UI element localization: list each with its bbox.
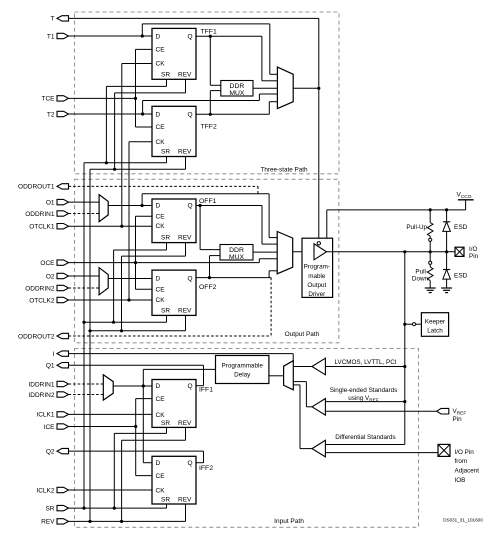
wire T1 to TFF1 D bbox=[69, 35, 153, 37]
wire O1 to mux bbox=[69, 201, 100, 203]
wire I line bbox=[69, 354, 294, 361]
wire ICLK1 to IFF1 CK bbox=[69, 413, 153, 415]
resistor Pull-Down bbox=[427, 252, 433, 288]
svg-text:CK: CK bbox=[156, 297, 166, 304]
svg-text:TFF1: TFF1 bbox=[201, 29, 217, 36]
svg-text:Q1: Q1 bbox=[46, 363, 55, 370]
mux: O1/ODDRIN1 select bbox=[99, 195, 108, 222]
buffer triangle in output driver bbox=[314, 244, 327, 260]
dashed box: Input Path section bbox=[75, 349, 419, 528]
flip-flop OFF1 bbox=[152, 199, 196, 243]
junction TFF1 Q bbox=[209, 35, 212, 38]
pin OCE (input) bbox=[40, 260, 68, 267]
pin ICLK2 (input) bbox=[36, 487, 68, 494]
label I/O Pin bbox=[469, 246, 479, 260]
svg-text:CK: CK bbox=[156, 223, 166, 230]
svg-text:Differential Standards: Differential Standards bbox=[335, 434, 395, 441]
junction O1 path bbox=[141, 204, 144, 207]
I/O pin from adjacent IOB bbox=[438, 444, 450, 456]
pin REV (input) bbox=[41, 519, 68, 526]
wire OTCLK1 to OFF1 CK bbox=[69, 225, 153, 227]
wire IFF2 SR bbox=[166, 504, 168, 508]
svg-text:ODDRIN1: ODDRIN1 bbox=[25, 211, 55, 218]
svg-text:Driver: Driver bbox=[308, 291, 325, 298]
wire VREF to buffer2 lower input bbox=[325, 410, 436, 412]
label IFF1 bbox=[199, 387, 213, 394]
svg-text:DDR: DDR bbox=[230, 83, 245, 90]
wire OFF2 Q to output mux input 5 bbox=[269, 271, 277, 278]
svg-text:CE: CE bbox=[156, 473, 166, 480]
svg-text:T2: T2 bbox=[47, 111, 55, 118]
svg-text:IDDRIN1: IDDRIN1 bbox=[28, 381, 54, 388]
svg-text:IOB: IOB bbox=[455, 477, 466, 484]
svg-text:T: T bbox=[51, 16, 55, 23]
svg-text:CE: CE bbox=[156, 286, 166, 293]
junction on T1 wire bbox=[141, 34, 144, 37]
figure id text bbox=[443, 518, 483, 523]
wire OFF1 Q output bbox=[196, 205, 262, 207]
wire input mux output to delay bbox=[269, 375, 284, 377]
tristate bubble on driver bbox=[317, 242, 320, 245]
wire Vcco rail to driver top bbox=[327, 210, 466, 238]
svg-text:D: D bbox=[156, 460, 161, 467]
flip-flop IFF1 bbox=[152, 380, 196, 428]
label Single-ended Standards using VREF bbox=[330, 387, 398, 403]
svg-text:SR: SR bbox=[161, 497, 170, 504]
junction OTCLK1 column bbox=[120, 225, 123, 228]
pin T (output) bbox=[51, 16, 69, 23]
svg-text:D: D bbox=[156, 203, 161, 210]
label Pull-Up bbox=[406, 224, 427, 231]
wire tristate control to output driver bbox=[318, 88, 320, 241]
mux: input standard select bbox=[284, 361, 294, 390]
junction on T2 wire bbox=[141, 112, 144, 115]
wire OFF1 SR bbox=[114, 243, 167, 323]
wire buffer3 output to mux bbox=[293, 385, 312, 449]
buffer single-ended VREF bbox=[312, 399, 325, 416]
box Keeper Latch bbox=[421, 313, 448, 337]
junction SR taps bbox=[82, 507, 116, 510]
svg-text:O2: O2 bbox=[46, 273, 55, 280]
junction OFF1 Q bbox=[199, 204, 202, 207]
svg-text:Q: Q bbox=[188, 33, 193, 40]
label OFF2 bbox=[199, 284, 217, 291]
wire ODDROUT2 (dashed) bbox=[69, 278, 272, 336]
pin IDDRIN1 (input) bbox=[28, 381, 68, 388]
svg-text:ODDROUT2: ODDROUT2 bbox=[18, 333, 55, 340]
box: Programmable Output Driver bbox=[302, 238, 333, 298]
svg-text:Program-: Program- bbox=[304, 264, 330, 271]
svg-text:SR: SR bbox=[161, 149, 170, 156]
dashed box: Three-state Path section bbox=[75, 12, 340, 174]
wire ICE bbox=[69, 426, 136, 428]
svg-text:Output Path: Output Path bbox=[285, 331, 320, 338]
svg-text:OCE: OCE bbox=[40, 260, 55, 267]
svg-text:TFF2: TFF2 bbox=[201, 123, 217, 130]
wire OCE to output mux input 4 bbox=[69, 259, 278, 263]
pin I (output) bbox=[53, 351, 69, 358]
box Programmable Delay bbox=[216, 356, 269, 384]
svg-text:D: D bbox=[156, 383, 161, 390]
label LVCMOS, LVTTL, PCI bbox=[334, 359, 396, 366]
svg-text:SR: SR bbox=[161, 308, 170, 315]
mux: three-state output select bbox=[277, 67, 293, 109]
wire O1 bypass to output mux input 1 bbox=[142, 194, 277, 238]
wire OFF2 Q to DDR MUX input B bbox=[210, 256, 221, 278]
wire delay output to D node bbox=[143, 369, 215, 386]
svg-text:T1: T1 bbox=[47, 33, 55, 40]
wire O2 mux output to OFF2 D bbox=[108, 278, 152, 280]
mux: output select bbox=[277, 232, 293, 274]
pin TCE (input) bbox=[42, 96, 69, 103]
resistor Pull-Up bbox=[427, 210, 433, 252]
svg-text:D: D bbox=[156, 33, 161, 40]
DDR MUX (output path) bbox=[220, 245, 253, 262]
pin Q2 (output) bbox=[46, 448, 69, 455]
junction OFF2 SR taps bbox=[82, 321, 115, 324]
svg-text:ICLK2: ICLK2 bbox=[36, 487, 54, 494]
wire REV line bbox=[69, 520, 186, 522]
pin Q1 (output) bbox=[46, 363, 69, 370]
wire pad to buffer3 upper input bbox=[325, 444, 404, 446]
svg-text:REV: REV bbox=[178, 420, 192, 427]
svg-text:Q: Q bbox=[188, 460, 193, 467]
wire O1 mux output to OFF1 D bbox=[108, 205, 152, 207]
wire T2 bypass to mux bbox=[143, 94, 278, 114]
svg-text:Single-ended Standards: Single-ended Standards bbox=[330, 387, 398, 394]
wire IFF1 REV bbox=[122, 427, 186, 521]
label I/O Pin from Adjacent IOB bbox=[455, 449, 480, 484]
svg-text:SR: SR bbox=[161, 235, 170, 242]
wire buffer2 output to mux bbox=[293, 382, 312, 407]
svg-text:Programmable: Programmable bbox=[222, 362, 264, 369]
ground under pull-down bbox=[425, 288, 436, 293]
svg-text:D: D bbox=[156, 276, 161, 283]
wire OTCLK2 to OFF2 CK bbox=[69, 299, 153, 301]
label IFF2 bbox=[199, 465, 213, 472]
pin ICLK1 (input) bbox=[36, 412, 68, 419]
svg-text:IFF2: IFF2 bbox=[199, 465, 213, 472]
svg-text:LVCMOS, LVTTL, PCI: LVCMOS, LVTTL, PCI bbox=[334, 359, 396, 366]
DDR MUX (three-state path) bbox=[221, 81, 253, 98]
junction OCE column bbox=[134, 261, 137, 264]
svg-text:CE: CE bbox=[156, 213, 166, 220]
label TFF1 bbox=[201, 29, 217, 36]
wire driver output to pad rail bbox=[327, 251, 456, 253]
wire SR line bbox=[69, 507, 167, 509]
mux: O2/ODDRIN2 select bbox=[99, 268, 108, 295]
svg-text:REV: REV bbox=[178, 308, 192, 315]
svg-text:Three-state Path: Three-state Path bbox=[261, 166, 308, 173]
pin ODDROUT1 (output) bbox=[18, 184, 68, 191]
pin OTCLK1 (input) bbox=[29, 224, 68, 231]
wire OTCLK1 column to TFF1 CK bbox=[122, 64, 152, 227]
wire SR main column bbox=[83, 163, 85, 508]
pin VREF bbox=[437, 408, 449, 414]
svg-text:OTCLK1: OTCLK1 bbox=[29, 224, 55, 231]
junction keeper tap bbox=[403, 323, 406, 326]
wire OFF1 REV bbox=[122, 243, 186, 331]
flip-flop TFF1 bbox=[152, 28, 196, 79]
I/O pad pin bbox=[455, 247, 464, 256]
buffer differential bbox=[312, 440, 325, 457]
junction pad rail taps bbox=[403, 250, 448, 253]
wire T to tristate node bbox=[69, 18, 319, 88]
wire O2 to mux bbox=[69, 275, 100, 277]
label Pull-Down bbox=[412, 269, 429, 283]
wire tristate mux output bbox=[293, 87, 319, 89]
pin ODDRIN1 (input) bbox=[25, 211, 68, 218]
pin IDDRIN2 (input) bbox=[28, 392, 68, 399]
svg-text:CK: CK bbox=[156, 488, 166, 495]
svg-text:CK: CK bbox=[156, 61, 166, 68]
svg-text:CK: CK bbox=[156, 412, 166, 419]
wire OFF2 SR bbox=[84, 315, 167, 322]
junction TFF2 REV link bbox=[113, 168, 116, 171]
svg-text:REV: REV bbox=[178, 497, 192, 504]
label TFF2 bbox=[201, 123, 217, 130]
svg-text:REV: REV bbox=[178, 71, 192, 78]
svg-text:REV: REV bbox=[178, 149, 192, 156]
dashed box: Output Path section bbox=[75, 179, 339, 342]
label: Output Path bbox=[285, 331, 320, 338]
pin OTCLK2 (input) bbox=[29, 297, 68, 304]
svg-text:Delay: Delay bbox=[234, 371, 251, 378]
buffer LVCMOS/LVTTL/PCI bbox=[312, 358, 325, 375]
pin SR (input) bbox=[45, 505, 68, 512]
wire IFF2 REV bbox=[185, 504, 187, 521]
svg-text:D: D bbox=[156, 111, 161, 118]
svg-text:ICLK1: ICLK1 bbox=[36, 412, 54, 419]
label: Input Path bbox=[274, 518, 304, 525]
svg-text:TCE: TCE bbox=[42, 96, 56, 103]
svg-text:CE: CE bbox=[156, 396, 166, 403]
junction ICE column bbox=[134, 425, 137, 428]
pin O1 (input) bbox=[46, 199, 69, 206]
junction OFF2 REV taps bbox=[88, 329, 123, 332]
svg-text:I/O: I/O bbox=[469, 246, 477, 253]
label Differential Standards bbox=[335, 434, 395, 441]
pin ODDRIN2 (input) bbox=[25, 285, 68, 292]
svg-text:Pin: Pin bbox=[453, 416, 463, 423]
wire output mux to driver bbox=[293, 251, 314, 253]
wire OFF1 Q to DDR MUX input A bbox=[200, 206, 220, 250]
wire OFF1 Q to output mux input 2 bbox=[262, 206, 277, 245]
wire pad to buffer1 input bbox=[325, 366, 404, 368]
label: Three-state Path bbox=[261, 166, 308, 173]
wire TCE column to TFF1 CE and TFF2 CE bbox=[136, 49, 153, 127]
svg-text:Q: Q bbox=[188, 383, 193, 390]
wire IDDRIN2 (dashed) bbox=[69, 394, 104, 396]
svg-text:from: from bbox=[455, 458, 468, 465]
wire TFF2 Q to DDR MUX input B bbox=[210, 91, 221, 115]
junction rail taps bbox=[429, 208, 449, 211]
pin ICE (input) bbox=[44, 424, 69, 431]
svg-text:I: I bbox=[53, 351, 55, 358]
wire DDR MUX output to tristate mux input 3 bbox=[253, 87, 277, 89]
mux: IDDRIN select bbox=[103, 375, 113, 400]
flip-flop TFF2 bbox=[152, 106, 196, 156]
pin T2 (input) bbox=[47, 111, 69, 118]
wire ODDRIN1 (dashed) bbox=[69, 213, 100, 215]
junction OTCLK2 column bbox=[127, 298, 130, 301]
svg-text:SR: SR bbox=[45, 505, 54, 512]
svg-text:IDDRIN2: IDDRIN2 bbox=[28, 392, 54, 399]
svg-text:IFF1: IFF1 bbox=[199, 387, 213, 394]
wire Q2 from IFF2 Q bbox=[69, 451, 204, 463]
wire ODDRIN2 (dashed) bbox=[69, 287, 100, 289]
svg-text:DS031_31_101600: DS031_31_101600 bbox=[443, 518, 483, 523]
junction pad tap buffer1 bbox=[403, 365, 406, 368]
svg-text:Pin: Pin bbox=[469, 253, 479, 260]
svg-text:SR: SR bbox=[161, 71, 170, 78]
wire adjacent IOB to buffer3 lower input bbox=[325, 452, 438, 454]
svg-text:ESD: ESD bbox=[454, 224, 468, 231]
svg-text:Q: Q bbox=[188, 276, 193, 283]
diode ESD upper bbox=[443, 210, 451, 252]
wire IFF1 SR bbox=[114, 427, 166, 508]
junction tristate node bbox=[317, 87, 320, 90]
svg-text:MUX: MUX bbox=[229, 90, 245, 97]
svg-text:I/O Pin: I/O Pin bbox=[455, 449, 475, 456]
svg-text:ODDROUT1: ODDROUT1 bbox=[18, 184, 55, 191]
svg-text:CE: CE bbox=[156, 47, 166, 54]
svg-text:Input Path: Input Path bbox=[274, 518, 304, 525]
svg-text:Adjacent: Adjacent bbox=[455, 468, 480, 475]
svg-text:MUX: MUX bbox=[229, 254, 245, 261]
pin ODDROUT2 (output) bbox=[18, 333, 68, 340]
label ESD upper bbox=[454, 224, 468, 231]
svg-text:Pull-: Pull- bbox=[415, 269, 428, 276]
pin O2 (input) bbox=[46, 273, 69, 280]
wire IDDRIN1 (dashed) bbox=[69, 383, 104, 385]
svg-text:ESD: ESD bbox=[454, 273, 468, 280]
svg-text:Down: Down bbox=[412, 276, 429, 283]
wire Q1 from IFF1 Q bbox=[69, 365, 204, 386]
junction REV taps bbox=[88, 520, 123, 523]
wire T2 to TFF2 D bbox=[69, 113, 153, 115]
wire OFF2 Q output bbox=[196, 277, 271, 279]
svg-text:Output: Output bbox=[307, 282, 326, 289]
svg-text:mable: mable bbox=[308, 273, 326, 280]
label ESD lower bbox=[454, 273, 468, 280]
wire D node to IFF2 D bbox=[143, 386, 152, 463]
wire TFF1 REV bbox=[115, 79, 186, 169]
svg-text:ICE: ICE bbox=[44, 424, 56, 431]
flip-flop OFF2 bbox=[152, 270, 196, 315]
wire TFF1 Q to DDR MUX input A bbox=[210, 36, 221, 85]
keeper programmable connection bbox=[405, 323, 422, 326]
junction pad tap buffer2 bbox=[403, 400, 406, 403]
wire TFF1 Q to tristate mux input 2 bbox=[262, 36, 278, 81]
svg-text:DDR: DDR bbox=[229, 247, 244, 254]
wire T1 bypass to mux bbox=[142, 24, 277, 74]
wire buffer1 output to mux bbox=[293, 366, 312, 368]
wire pad feedback column bbox=[404, 252, 406, 445]
svg-text:OFF2: OFF2 bbox=[199, 284, 217, 291]
label VREF Pin bbox=[453, 408, 467, 423]
svg-text:OTCLK2: OTCLK2 bbox=[29, 297, 55, 304]
wire ICLK2 to IFF2 CK bbox=[69, 489, 153, 491]
wire TFF1 Q output bbox=[196, 35, 262, 37]
svg-text:Q: Q bbox=[188, 111, 193, 118]
junction TFF2 SR link bbox=[105, 161, 108, 164]
wire REV main column bbox=[89, 169, 91, 521]
wire OFF2 REV bbox=[90, 315, 186, 330]
svg-text:O1: O1 bbox=[46, 199, 55, 206]
svg-text:CE: CE bbox=[156, 124, 166, 131]
wire TFF2 SR bbox=[84, 157, 167, 163]
diode ESD lower bbox=[443, 252, 451, 288]
svg-text:SR: SR bbox=[161, 420, 170, 427]
wire OTCLK2 column to TFF2 CK bbox=[129, 142, 152, 300]
wire DDR MUX output to output mux input 3 bbox=[253, 251, 277, 253]
svg-text:Pull-Up: Pull-Up bbox=[406, 224, 427, 231]
wire pad to buffer2 upper input bbox=[325, 401, 404, 403]
wire TCE bbox=[69, 97, 136, 99]
wire ICE column to IFF1 CE and IFF2 CE bbox=[136, 399, 152, 476]
wire OCE column to OFF1 CE and OFF2 CE bbox=[136, 216, 153, 289]
power Vcco bbox=[457, 192, 474, 210]
svg-text:Keeper: Keeper bbox=[425, 318, 445, 325]
ground under ESD lower bbox=[441, 288, 452, 293]
wire TFF2 REV bbox=[90, 157, 186, 170]
junction TFF2 Q bbox=[209, 113, 212, 116]
wire TFF1 SR bbox=[106, 79, 166, 163]
svg-text:ODDRIN2: ODDRIN2 bbox=[25, 285, 55, 292]
junction input D node bbox=[142, 384, 145, 387]
wire IDDRIN mux output to IFF1 D bbox=[113, 385, 152, 387]
junction OFF2 Q bbox=[208, 276, 211, 279]
wire TFF2 Q output bbox=[196, 113, 269, 115]
svg-text:Q2: Q2 bbox=[46, 448, 55, 455]
svg-text:CK: CK bbox=[156, 139, 166, 146]
wire TFF2 Q to tristate mux input 5 bbox=[269, 102, 277, 115]
junction TCE column bbox=[134, 97, 137, 100]
label OFF1 bbox=[199, 198, 217, 205]
pin T1 (input) bbox=[47, 33, 69, 40]
wire ODDROUT1 (dashed) bbox=[69, 186, 259, 193]
svg-text:Q: Q bbox=[188, 203, 193, 210]
flip-flop IFF2 bbox=[152, 456, 196, 504]
svg-text:OFF1: OFF1 bbox=[199, 198, 217, 205]
svg-text:REV: REV bbox=[41, 519, 55, 526]
svg-text:Latch: Latch bbox=[427, 327, 443, 334]
svg-text:REV: REV bbox=[178, 235, 192, 242]
